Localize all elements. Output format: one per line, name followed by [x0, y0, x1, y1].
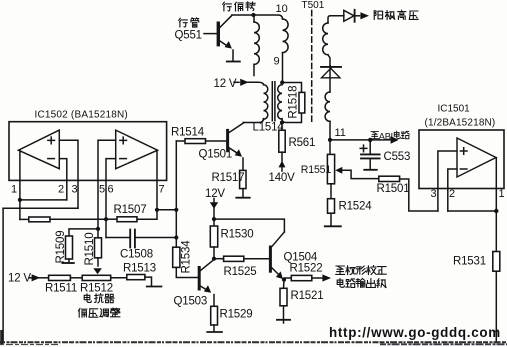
resistor R1517	[240, 170, 246, 196]
wire	[70, 277, 82, 279]
wire pin11 down	[329, 121, 331, 139]
svg-text:ABL: ABL	[379, 131, 396, 141]
arrow to anode HV	[360, 12, 369, 19]
svg-text:R1510: R1510	[84, 233, 96, 266]
svg-text:R1514: R1514	[171, 127, 205, 139]
svg-text:R1530: R1530	[221, 229, 254, 241]
resistor R1529	[211, 306, 218, 331]
ground (R1521)	[277, 319, 290, 321]
svg-text:12 V: 12 V	[214, 78, 237, 90]
svg-text:6: 6	[108, 184, 114, 196]
arrow to pincushion corrector	[322, 274, 331, 281]
svg-text:R1509: R1509	[55, 231, 67, 264]
resistor R1510	[93, 229, 102, 274]
svg-text:R1522: R1522	[290, 263, 323, 275]
label 阳极高压 (anode high voltage)	[374, 10, 418, 19]
wire	[111, 277, 127, 279]
wire pin7 output	[156, 151, 158, 210]
wire left edge down	[2, 208, 4, 343]
wire 12V feed with arrow	[234, 81, 239, 83]
svg-text:Q1501: Q1501	[199, 149, 233, 161]
resistor R1513	[127, 275, 145, 280]
svg-text:11: 11	[335, 127, 346, 139]
resistor R561	[279, 123, 285, 162]
svg-text:R1524: R1524	[339, 201, 373, 213]
transistor Q1504	[269, 232, 285, 279]
node Q1504 emitter junction	[282, 278, 286, 282]
wire pin9 down	[282, 53, 284, 83]
capacitor C553 (electrolytic)	[360, 138, 379, 169]
capacitor C1508	[106, 230, 176, 248]
op-amp IC1502 box	[9, 122, 167, 181]
svg-text:R1525: R1525	[224, 266, 257, 278]
transformer T501 core (dashed)	[311, 11, 313, 122]
inductor deflection-yoke coil	[254, 15, 259, 76]
wire pin3 input	[438, 151, 457, 211]
resistor R1518	[299, 92, 305, 113]
ground (R1529)	[207, 331, 222, 333]
ground (R1524)	[325, 225, 341, 227]
diode rectifier (anode HV)	[344, 10, 360, 22]
svg-text:R1534: R1534	[181, 240, 193, 274]
wire 12V rail	[214, 219, 284, 232]
svg-text:R1511: R1511	[45, 283, 77, 295]
svg-text:R1512: R1512	[80, 283, 113, 295]
svg-text:R1551: R1551	[301, 164, 332, 176]
resistor R1522	[284, 275, 323, 280]
inductor T501 primary winding pin10-pin9	[283, 19, 289, 53]
label 电抗器	[84, 294, 114, 303]
resistor R1525	[214, 256, 269, 261]
svg-text:2: 2	[58, 184, 64, 196]
transistor Q551	[204, 16, 233, 61]
wire 12V down arrow	[213, 199, 215, 203]
op-amp U1501	[457, 138, 496, 177]
resistor R1507	[106, 210, 157, 222]
resistor R1514	[176, 139, 226, 210]
node L1514 secondary top	[280, 80, 284, 84]
node pin1 junction	[18, 198, 22, 202]
svg-text:IC1501: IC1501	[438, 104, 471, 115]
svg-text:1: 1	[499, 188, 505, 200]
resistor R1501	[379, 176, 438, 211]
wire R1514 branch down to R1534	[175, 210, 177, 247]
svg-text:3: 3	[72, 184, 78, 196]
svg-text:140V: 140V	[269, 172, 296, 184]
inductor T501 secondary lower winding	[325, 92, 330, 121]
svg-text:R561: R561	[289, 137, 316, 149]
svg-text:10: 10	[276, 3, 288, 15]
potentiometer R1551	[327, 140, 334, 184]
wire pin1 output	[19, 151, 21, 220]
svg-text:R1517: R1517	[212, 172, 245, 184]
op-amp IC1501 box	[419, 130, 504, 189]
svg-text:12V: 12V	[205, 188, 225, 200]
resistor R1521	[280, 280, 287, 323]
inductor T501 secondary upper winding	[323, 16, 344, 66]
wire pin1 output	[495, 158, 497, 252]
svg-text:R1518: R1518	[288, 86, 300, 119]
resistor R1531	[493, 252, 500, 343]
wire R1513 to ground	[145, 277, 152, 285]
140V supply arrow	[279, 161, 286, 168]
svg-text:Q1503: Q1503	[174, 296, 208, 308]
transistor Q1503	[198, 260, 214, 307]
node C1508 right junction	[174, 235, 178, 239]
svg-text:R1507: R1507	[114, 204, 147, 216]
node L1514 secondary bottom	[280, 120, 284, 124]
border bottom scan edge	[0, 341, 507, 343]
svg-text:R1513: R1513	[123, 263, 156, 275]
svg-text:R1521: R1521	[291, 290, 324, 302]
svg-text:3: 3	[431, 188, 437, 200]
ground (C553)	[364, 169, 376, 171]
L1514 core lines	[272, 82, 275, 121]
svg-text:IC1502 (BA15218N): IC1502 (BA15218N)	[35, 110, 128, 121]
svg-text:9: 9	[274, 56, 280, 68]
label 至枕形校正	[336, 266, 386, 275]
node pin7 junction	[155, 208, 159, 212]
diode damper	[321, 66, 341, 93]
potentiometer R1512	[82, 275, 111, 280]
node R1509/R1510 junction	[96, 227, 100, 231]
svg-text:Q551: Q551	[175, 30, 202, 42]
wire pin2 inverting input	[59, 159, 67, 200]
wire pin5 noninverting input	[98, 140, 116, 229]
label 行管	[179, 18, 199, 27]
wire pin2 input	[448, 169, 457, 211]
node pin6 junction	[104, 217, 108, 221]
ground (Q551 emitter)	[227, 61, 240, 63]
label 至ABL电路	[371, 131, 409, 138]
wire to ABL with arrow	[330, 139, 391, 141]
node pin11 junction	[328, 138, 332, 142]
node junction top rail	[251, 13, 255, 17]
svg-text:5: 5	[99, 184, 105, 196]
svg-text:(1/2BA15218N): (1/2BA15218N)	[425, 118, 496, 129]
svg-text:7: 7	[159, 184, 165, 196]
svg-text:C553: C553	[384, 151, 411, 163]
op-amp U1502b	[116, 130, 158, 169]
wire pin7 junction to R1514 branch	[157, 209, 176, 211]
node 12V rail left	[212, 217, 216, 221]
wire pin3 feedback to left edge	[3, 207, 78, 209]
node output junction	[494, 209, 498, 213]
label 偏压调整	[78, 308, 119, 317]
wire 12V arrow	[30, 277, 33, 279]
svg-text:R1501: R1501	[377, 183, 410, 195]
svg-text:http://www.go-gddq.com: http://www.go-gddq.com	[329, 325, 501, 340]
wire pin6 inverting input	[106, 159, 116, 238]
resistor R1511	[49, 275, 71, 280]
op-amp U1502a	[18, 130, 59, 169]
wire top rail	[232, 15, 283, 19]
label 行偏转 (line deflection)	[223, 2, 255, 11]
resistor (unlabeled, pin1 loop)	[20, 217, 106, 222]
svg-text:C1508: C1508	[120, 249, 153, 261]
inductor L1514 secondary	[278, 83, 302, 123]
R1551 wiper arrow	[335, 167, 342, 174]
node R1514 branch	[174, 208, 178, 212]
svg-text:R1531: R1531	[453, 256, 486, 268]
inductor L1514 primary	[243, 85, 267, 123]
transistor Q1501	[226, 123, 243, 171]
svg-text:1: 1	[11, 184, 17, 196]
svg-text:2: 2	[449, 188, 455, 200]
node Q1503 collector junction	[212, 257, 216, 261]
svg-text:R1529: R1529	[220, 309, 253, 321]
resistor R1509	[62, 229, 98, 263]
resistor R1530	[210, 219, 217, 259]
svg-text:12 V: 12 V	[8, 273, 31, 285]
ground (R1513)	[147, 286, 162, 288]
svg-text:T501: T501	[302, 0, 325, 11]
label 电路输出级	[337, 279, 386, 288]
resistor R1524	[328, 184, 335, 226]
ground (R1517)	[236, 197, 249, 199]
wire pin1 to pin2	[20, 199, 67, 201]
wire pin3 noninverting input	[59, 140, 78, 208]
wire pin2 feedback to output	[448, 210, 497, 212]
resistor R1534	[173, 247, 198, 277]
